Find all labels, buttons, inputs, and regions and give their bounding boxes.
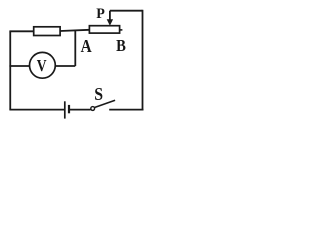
wire: wiper top horizontal [110, 10, 143, 12]
svg-text:V: V [37, 57, 47, 76]
wire: bottom left (corner to battery) [9, 109, 64, 111]
battery: long thin plate [64, 101, 66, 118]
svg-text:S: S [94, 84, 103, 104]
wire: top-left horizontal to resistor [9, 30, 33, 32]
battery: short thick plate [68, 105, 70, 113]
background [0, 0, 150, 123]
wiper stem wire [109, 11, 111, 20]
wire: voltmeter branch left segment [9, 65, 30, 67]
wire: right vertical of outer loop [142, 10, 144, 110]
switch S: lever [95, 100, 116, 107]
svg-text:A: A [81, 36, 92, 56]
potentiometer terminal B stub [120, 29, 123, 31]
resistor R (box) [34, 27, 60, 36]
svg-text:P: P [96, 6, 105, 22]
svg-text:B: B [116, 37, 126, 55]
wire: bottom right (switch fixed contact to right corner) [109, 109, 143, 111]
wire: resistor to potentiometer terminal A [60, 30, 89, 31]
switch S: pivot circle [91, 107, 95, 111]
voltmeter circle [30, 52, 56, 78]
wire: voltmeter branch right segment [55, 65, 75, 67]
wiper arrowhead [107, 19, 113, 25]
wire: left vertical of outer loop [9, 31, 11, 109]
wire: battery to switch [70, 109, 91, 111]
potentiometer P (box) [89, 26, 119, 33]
wire: junction vertical (top wire down to voltmeter branch) [74, 30, 76, 66]
